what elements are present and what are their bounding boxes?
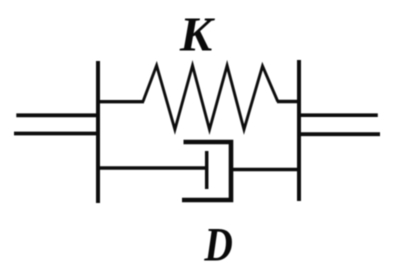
svg-text:K: K [179, 8, 216, 61]
svg-text:D: D [204, 218, 233, 268]
